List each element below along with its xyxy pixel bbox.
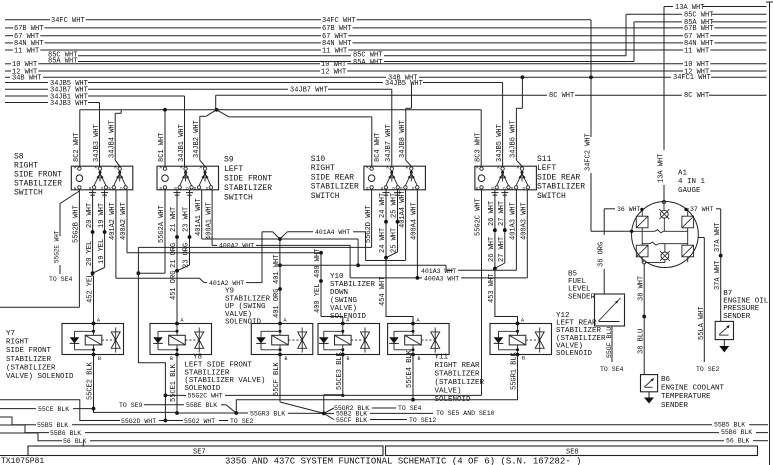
svg-text:RIGHT: RIGHT: [311, 164, 335, 173]
svg-text:GAUGE: GAUGE: [678, 187, 701, 195]
svg-text:(SWING: (SWING: [330, 297, 358, 305]
svg-text:85A WHT: 85A WHT: [684, 19, 713, 27]
svg-text:23 ORG: 23 ORG: [183, 243, 191, 268]
svg-text:TO SE4: TO SE4: [49, 276, 73, 283]
svg-text:STABILIZER: STABILIZER: [330, 281, 376, 289]
svg-text:SWITCH: SWITCH: [224, 194, 253, 203]
svg-text:ENGINE COOLANT: ENGINE COOLANT: [661, 385, 725, 393]
svg-text:SENDER: SENDER: [661, 402, 689, 410]
svg-text:401A1 WHT: 401A1 WHT: [195, 198, 203, 236]
svg-text:13A WHT: 13A WHT: [658, 154, 666, 183]
svg-text:SENDER: SENDER: [723, 313, 751, 321]
svg-text:B: B: [418, 356, 421, 362]
svg-text:38 WHT: 38 WHT: [638, 276, 646, 301]
svg-text:55B5 BLK: 55B5 BLK: [37, 422, 68, 429]
svg-text:55B6 BLK: 55B6 BLK: [50, 430, 81, 437]
svg-text:8C WHT: 8C WHT: [684, 92, 709, 100]
svg-text:36 ORG: 36 ORG: [598, 242, 606, 267]
svg-text:55CE BLK: 55CE BLK: [38, 406, 69, 413]
svg-text:85A WHT: 85A WHT: [353, 59, 382, 67]
svg-text:11 WHT: 11 WHT: [14, 47, 39, 55]
svg-text:24 WHT: 24 WHT: [379, 228, 387, 253]
svg-text:21 ORG: 21 ORG: [170, 243, 178, 268]
svg-text:STABILIZER: STABILIZER: [311, 183, 359, 192]
svg-text:55G2C WHT: 55G2C WHT: [475, 198, 483, 236]
svg-text:27 WHT: 27 WHT: [498, 237, 506, 262]
svg-text:451 ORG: 451 ORG: [170, 271, 178, 300]
svg-text:11 WHT: 11 WHT: [684, 47, 709, 55]
svg-text:(STABILIZER: (STABILIZER: [435, 379, 485, 387]
svg-text:Y11: Y11: [435, 354, 449, 362]
svg-text:55G2 WHT: 55G2 WHT: [184, 418, 215, 425]
svg-text:454 WHT: 454 WHT: [379, 277, 387, 306]
svg-text:55G2D WHT: 55G2D WHT: [121, 418, 156, 425]
svg-text:37A WHT: 37A WHT: [714, 223, 722, 252]
svg-text:400A4 WHT: 400A4 WHT: [411, 202, 419, 240]
svg-text:400A2 WHT: 400A2 WHT: [120, 202, 128, 240]
svg-text:B: B: [170, 356, 173, 362]
svg-text:34JB8 WHT: 34JB8 WHT: [399, 120, 407, 158]
svg-text:401A3 WHT: 401A3 WHT: [510, 202, 518, 240]
svg-text:452 YEL: 452 YEL: [87, 274, 95, 303]
svg-text:34JB5 WHT: 34JB5 WHT: [496, 124, 504, 162]
svg-text:67B WHT: 67B WHT: [14, 25, 43, 33]
svg-text:13A WHT: 13A WHT: [675, 4, 704, 12]
svg-text:55BE BLK: 55BE BLK: [186, 402, 217, 409]
svg-text:A: A: [521, 318, 524, 324]
svg-text:SOLENOID: SOLENOID: [184, 385, 221, 393]
svg-text:401A3 WHT: 401A3 WHT: [421, 268, 456, 275]
svg-text:34FC WHT: 34FC WHT: [322, 17, 356, 25]
svg-text:(STABILIZER VALVE): (STABILIZER VALVE): [184, 377, 265, 385]
svg-text:SIDE FRONT: SIDE FRONT: [14, 171, 62, 180]
svg-text:SOLENOID: SOLENOID: [225, 319, 262, 327]
svg-text:55B5 BLK: 55B5 BLK: [714, 421, 745, 428]
svg-text:A: A: [97, 318, 100, 324]
svg-text:STABILIZER: STABILIZER: [225, 295, 271, 303]
svg-text:B: B: [347, 356, 350, 362]
svg-text:25 WHT: 25 WHT: [391, 193, 399, 218]
svg-text:VALVE): VALVE): [435, 388, 462, 396]
svg-text:20 YEL: 20 YEL: [86, 241, 94, 266]
svg-text:400 WHT: 400 WHT: [314, 249, 322, 278]
svg-text:8C3 WHT: 8C3 WHT: [475, 133, 483, 162]
svg-text:(STABILIZER: (STABILIZER: [6, 364, 56, 372]
svg-text:26 WHT: 26 WHT: [488, 237, 496, 262]
svg-text:S9: S9: [224, 156, 234, 165]
svg-text:SOLENOID: SOLENOID: [556, 350, 593, 358]
svg-text:8C2 WHT: 8C2 WHT: [73, 133, 81, 162]
svg-text:401A4 WHT: 401A4 WHT: [315, 229, 350, 236]
svg-text:TO SE2: TO SE2: [696, 366, 720, 373]
svg-text:34FC WHT: 34FC WHT: [51, 17, 85, 25]
svg-text:STABILIZER: STABILIZER: [184, 369, 230, 377]
svg-text:34JB4 WHT: 34JB4 WHT: [109, 120, 117, 158]
svg-text:SWITCH: SWITCH: [311, 192, 340, 201]
svg-text:85A WHT: 85A WHT: [48, 57, 77, 65]
svg-text:19 WHT: 19 WHT: [98, 203, 106, 228]
svg-text:400 YEL: 400 YEL: [314, 284, 322, 313]
svg-text:TO SE2: TO SE2: [230, 418, 254, 425]
svg-text:SIDE FRONT: SIDE FRONT: [224, 175, 272, 184]
svg-text:19 YEL: 19 YEL: [98, 239, 106, 264]
svg-text:TO SE5 AND SE10: TO SE5 AND SE10: [436, 410, 495, 417]
svg-text:STABILIZER: STABILIZER: [6, 356, 52, 364]
svg-text:335G AND 437C SYSTEM FUNCTIONA: 335G AND 437C SYSTEM FUNCTIONAL SCHEMATI…: [225, 456, 581, 465]
svg-text:Y8: Y8: [193, 354, 202, 362]
svg-text:55CE3 BLK: 55CE3 BLK: [336, 351, 344, 390]
svg-text:34JB3 WHT: 34JB3 WHT: [93, 124, 101, 162]
svg-text:SIDE REAR: SIDE REAR: [311, 173, 354, 182]
svg-text:25 WHT: 25 WHT: [391, 228, 399, 253]
svg-text:SOLENOID: SOLENOID: [330, 313, 367, 321]
svg-text:SWITCH: SWITCH: [537, 192, 566, 201]
svg-text:37 WHT: 37 WHT: [690, 206, 714, 213]
svg-text:LEFT SIDE FRONT: LEFT SIDE FRONT: [184, 362, 252, 370]
svg-text:34JB7 WHT: 34JB7 WHT: [290, 87, 328, 95]
svg-text:67B WHT: 67B WHT: [322, 25, 351, 33]
svg-text:SENDER: SENDER: [568, 293, 596, 301]
svg-text:A: A: [181, 318, 184, 324]
svg-text:401A2 WHT: 401A2 WHT: [209, 280, 244, 287]
svg-text:55GF BLU: 55GF BLU: [606, 327, 613, 358]
svg-text:55CE4 BLK: 55CE4 BLK: [406, 349, 414, 388]
svg-text:55CF BLK: 55CF BLK: [336, 417, 367, 424]
svg-text:38 BLU: 38 BLU: [638, 329, 646, 354]
svg-text:SIDE REAR: SIDE REAR: [537, 173, 580, 182]
svg-text:LEFT: LEFT: [537, 164, 556, 173]
svg-text:VALVE): VALVE): [330, 305, 357, 313]
svg-text:55CE2 BLK: 55CE2 BLK: [87, 361, 95, 400]
svg-text:VALVE): VALVE): [225, 311, 252, 319]
svg-text:8C4 WHT: 8C4 WHT: [374, 133, 382, 162]
svg-text:RIGHT: RIGHT: [6, 339, 29, 347]
svg-text:55G2E WHT: 55G2E WHT: [54, 230, 61, 263]
svg-text:B: B: [285, 356, 288, 362]
svg-text:27 WHT: 27 WHT: [498, 201, 506, 226]
svg-text:Y10: Y10: [330, 273, 344, 281]
svg-text:B6: B6: [661, 376, 671, 384]
svg-text:SWITCH: SWITCH: [14, 189, 43, 198]
svg-text:VALVE) SOLENOID: VALVE) SOLENOID: [6, 373, 74, 381]
svg-text:STABILIZER: STABILIZER: [224, 184, 272, 193]
svg-text:34JB5 WHT: 34JB5 WHT: [385, 80, 423, 88]
svg-text:400A2 WHT: 400A2 WHT: [219, 243, 254, 250]
svg-text:TEMPERATURE: TEMPERATURE: [661, 393, 711, 401]
svg-text:55G2C WHT: 55G2C WHT: [188, 393, 223, 400]
svg-text:8C WHT: 8C WHT: [549, 92, 574, 100]
svg-text:TO SE12: TO SE12: [409, 417, 436, 424]
svg-text:B: B: [98, 356, 101, 362]
svg-text:37A WHT: 37A WHT: [714, 261, 722, 290]
svg-text:401 ORG: 401 ORG: [273, 289, 281, 318]
svg-text:TO SE9: TO SE9: [119, 402, 143, 409]
svg-text:55LA WHT: 55LA WHT: [698, 306, 706, 340]
svg-text:26 WHT: 26 WHT: [488, 201, 496, 226]
svg-text:RIGHT: RIGHT: [14, 162, 38, 171]
svg-text:SIDE FRONT: SIDE FRONT: [6, 347, 52, 355]
svg-text:4 IN 1: 4 IN 1: [678, 178, 706, 186]
svg-text:34JB3 WHT: 34JB3 WHT: [50, 100, 88, 108]
svg-text:SE8: SE8: [566, 448, 579, 456]
svg-text:55CF BLK: 55CF BLK: [273, 362, 281, 396]
svg-text:S11: S11: [537, 155, 552, 164]
svg-text:11 WHT: 11 WHT: [322, 47, 347, 55]
svg-text:S8: S8: [14, 153, 24, 162]
svg-text:400A1 WHT: 400A1 WHT: [205, 202, 213, 240]
svg-text:56 BLK: 56 BLK: [726, 437, 750, 444]
svg-text:RIGHT REAR: RIGHT REAR: [435, 362, 481, 370]
svg-text:A: A: [417, 318, 420, 324]
svg-text:Y9: Y9: [225, 288, 234, 296]
svg-text:55GR1 BLK: 55GR1 BLK: [511, 351, 519, 390]
svg-text:34JB1 WHT: 34JB1 WHT: [178, 124, 186, 162]
svg-text:400A3 WHT: 400A3 WHT: [424, 275, 459, 282]
svg-text:STABILIZER: STABILIZER: [14, 180, 62, 189]
svg-text:34FC1 WHT: 34FC1 WHT: [673, 74, 711, 82]
svg-text:400A3 WHT: 400A3 WHT: [521, 202, 529, 240]
svg-text:S10: S10: [311, 155, 326, 164]
svg-text:A: A: [284, 318, 287, 324]
svg-text:55CE1 BLK: 55CE1 BLK: [170, 363, 178, 402]
svg-text:401A4 WHT: 401A4 WHT: [399, 190, 407, 228]
svg-text:401A2 WHT: 401A2 WHT: [109, 202, 117, 240]
svg-text:34JB6 WHT: 34JB6 WHT: [510, 120, 518, 158]
svg-text:55GR3 BLK: 55GR3 BLK: [250, 410, 285, 417]
svg-text:34JB2 WHT: 34JB2 WHT: [193, 120, 201, 158]
svg-text:20 WHT: 20 WHT: [86, 203, 94, 228]
svg-text:34JB7 WHT: 34JB7 WHT: [385, 124, 393, 162]
svg-text:LEFT: LEFT: [224, 165, 243, 174]
svg-text:STABILIZER: STABILIZER: [435, 371, 481, 379]
svg-text:55G2B WHT: 55G2B WHT: [73, 205, 81, 243]
svg-text:12 WHT: 12 WHT: [321, 68, 346, 76]
svg-text:55G2A WHT: 55G2A WHT: [158, 205, 166, 243]
svg-text:34FC2 WHT: 34FC2 WHT: [585, 133, 593, 171]
svg-text:B: B: [522, 356, 525, 362]
svg-text:401 WHT: 401 WHT: [273, 255, 281, 284]
svg-text:23 WHT: 23 WHT: [183, 207, 191, 232]
svg-text:A1: A1: [678, 170, 688, 178]
svg-text:TO SE4: TO SE4: [600, 366, 624, 373]
svg-text:24 WHT: 24 WHT: [379, 193, 387, 218]
svg-text:34B WHT: 34B WHT: [12, 75, 41, 83]
svg-text:TX1075P81: TX1075P81: [1, 457, 44, 465]
svg-text:TO SE4: TO SE4: [398, 405, 422, 412]
svg-text:STABILIZER: STABILIZER: [537, 183, 585, 192]
svg-text:DOWN: DOWN: [330, 289, 348, 297]
svg-text:36 WHT: 36 WHT: [617, 206, 641, 213]
svg-text:55B6 BLK: 55B6 BLK: [721, 429, 752, 436]
svg-text:21 WHT: 21 WHT: [170, 207, 178, 232]
svg-text:Y7: Y7: [6, 330, 15, 338]
svg-text:UP (SWING: UP (SWING: [225, 303, 266, 311]
svg-text:8C1 WHT: 8C1 WHT: [158, 133, 166, 162]
